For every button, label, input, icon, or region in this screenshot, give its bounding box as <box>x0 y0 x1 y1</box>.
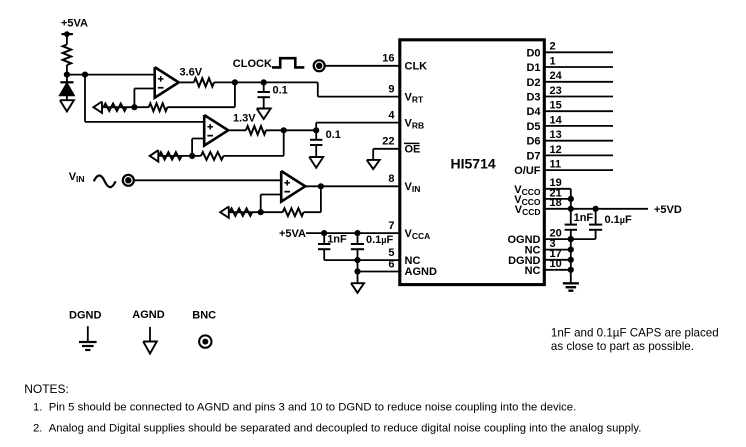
svg-text:VIN: VIN <box>69 171 85 184</box>
svg-text:+5VA: +5VA <box>61 18 88 30</box>
svg-text:10: 10 <box>550 258 562 270</box>
svg-text:9: 9 <box>388 83 394 95</box>
svg-text:VCCA: VCCA <box>405 228 431 241</box>
svg-text:2. Analog and Digital supplie: 2. Analog and Digital supplies should be… <box>33 422 641 434</box>
svg-text:15: 15 <box>550 100 562 112</box>
svg-text:0.1: 0.1 <box>326 129 341 141</box>
svg-text:0.1µF: 0.1µF <box>605 214 632 226</box>
svg-text:8: 8 <box>388 173 394 185</box>
svg-text:D1: D1 <box>526 62 540 74</box>
svg-text:+5VD: +5VD <box>654 204 682 216</box>
svg-text:D3: D3 <box>526 92 540 104</box>
svg-text:D7: D7 <box>526 150 540 162</box>
svg-text:VRB: VRB <box>405 117 425 130</box>
svg-text:23: 23 <box>550 85 562 97</box>
svg-text:as close to part as possible.: as close to part as possible. <box>551 340 694 353</box>
svg-text:O/UF: O/UF <box>514 165 541 177</box>
svg-text:HI5714: HI5714 <box>451 155 496 171</box>
svg-text:AGND: AGND <box>405 266 437 278</box>
svg-text:D0: D0 <box>526 47 540 59</box>
svg-text:24: 24 <box>550 70 563 82</box>
svg-text:16: 16 <box>382 53 394 65</box>
svg-text:1.3V: 1.3V <box>233 112 256 124</box>
svg-text:NC: NC <box>525 265 541 277</box>
svg-text:AGND: AGND <box>132 309 164 321</box>
svg-text:DGND: DGND <box>69 310 101 322</box>
svg-text:VRT: VRT <box>405 91 424 104</box>
svg-text:NC: NC <box>405 255 421 267</box>
svg-text:14: 14 <box>550 114 563 126</box>
svg-text:BNC: BNC <box>192 310 216 322</box>
svg-text:11: 11 <box>550 159 562 171</box>
svg-text:1: 1 <box>550 55 556 67</box>
svg-text:0.1µF: 0.1µF <box>366 234 393 246</box>
svg-text:D6: D6 <box>526 136 540 148</box>
svg-text:NOTES:: NOTES: <box>24 382 69 396</box>
svg-text:13: 13 <box>550 129 562 141</box>
svg-text:1. Pin 5 should be connected: 1. Pin 5 should be connected to AGND and… <box>33 402 576 414</box>
svg-text:4: 4 <box>388 109 395 121</box>
svg-text:1nF and 0.1µF CAPS are placed: 1nF and 0.1µF CAPS are placed <box>551 326 719 339</box>
svg-text:12: 12 <box>550 144 562 156</box>
svg-text:7: 7 <box>388 220 394 232</box>
svg-text:3.6V: 3.6V <box>180 66 203 78</box>
svg-text:D4: D4 <box>526 106 541 118</box>
svg-text:+5VA: +5VA <box>279 228 306 240</box>
svg-text:0.1: 0.1 <box>273 84 288 96</box>
svg-text:CLK: CLK <box>405 61 428 73</box>
svg-text:22: 22 <box>382 136 394 148</box>
svg-text:1nF: 1nF <box>574 212 594 224</box>
svg-text:5: 5 <box>388 247 394 259</box>
svg-text:VIN: VIN <box>405 181 421 194</box>
svg-text:1nF: 1nF <box>327 234 347 246</box>
svg-text:D5: D5 <box>526 121 540 133</box>
svg-text:OE: OE <box>405 144 421 156</box>
svg-text:2: 2 <box>550 41 556 53</box>
svg-text:CLOCK: CLOCK <box>233 58 272 70</box>
svg-text:D2: D2 <box>526 77 540 89</box>
